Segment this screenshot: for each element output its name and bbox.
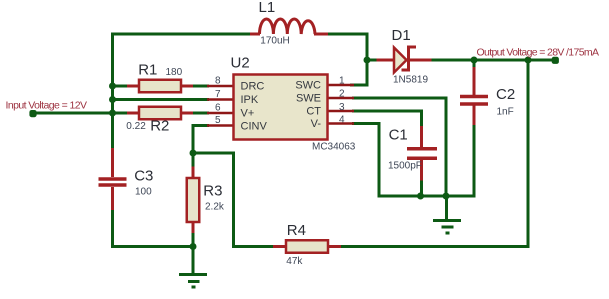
svg-text:SWE: SWE bbox=[296, 93, 321, 105]
svg-text:CINV: CINV bbox=[241, 121, 268, 133]
svg-text:V-: V- bbox=[311, 118, 322, 130]
svg-text:R4: R4 bbox=[287, 222, 306, 239]
svg-text:Input Voltage = 12V: Input Voltage = 12V bbox=[6, 100, 88, 112]
svg-text:8: 8 bbox=[215, 76, 221, 87]
svg-text:5: 5 bbox=[215, 115, 221, 126]
svg-text:1: 1 bbox=[339, 76, 345, 87]
svg-text:2: 2 bbox=[339, 89, 345, 100]
svg-text:D1: D1 bbox=[392, 27, 411, 44]
svg-text:2.2k: 2.2k bbox=[205, 202, 225, 213]
svg-text:R1: R1 bbox=[138, 61, 157, 78]
svg-text:Output Voltage = 28V /175mA: Output Voltage = 28V /175mA bbox=[477, 47, 600, 59]
svg-text:SWC: SWC bbox=[295, 80, 321, 92]
svg-text:1500pF: 1500pF bbox=[388, 161, 422, 172]
svg-text:C3: C3 bbox=[134, 167, 153, 184]
svg-text:MC34063: MC34063 bbox=[312, 142, 356, 153]
svg-text:100: 100 bbox=[135, 187, 152, 198]
svg-text:180: 180 bbox=[166, 67, 183, 78]
svg-text:DRC: DRC bbox=[241, 81, 265, 93]
svg-text:V+: V+ bbox=[241, 108, 255, 120]
svg-text:R2: R2 bbox=[150, 117, 169, 134]
svg-text:3: 3 bbox=[339, 102, 345, 113]
svg-text:CT: CT bbox=[306, 106, 321, 118]
svg-text:C2: C2 bbox=[496, 86, 515, 103]
svg-text:1nF: 1nF bbox=[497, 107, 514, 118]
svg-text:4: 4 bbox=[339, 115, 345, 126]
svg-text:7: 7 bbox=[215, 89, 221, 100]
svg-text:1N5819: 1N5819 bbox=[393, 75, 428, 86]
svg-text:L1: L1 bbox=[259, 0, 276, 16]
svg-text:U2: U2 bbox=[231, 55, 250, 72]
svg-text:6: 6 bbox=[215, 103, 221, 114]
svg-text:C1: C1 bbox=[389, 126, 408, 143]
svg-text:170uH: 170uH bbox=[260, 36, 289, 47]
svg-text:0.22: 0.22 bbox=[126, 121, 146, 132]
svg-text:IPK: IPK bbox=[241, 94, 259, 106]
svg-text:47k: 47k bbox=[286, 256, 303, 267]
svg-text:R3: R3 bbox=[203, 183, 222, 200]
